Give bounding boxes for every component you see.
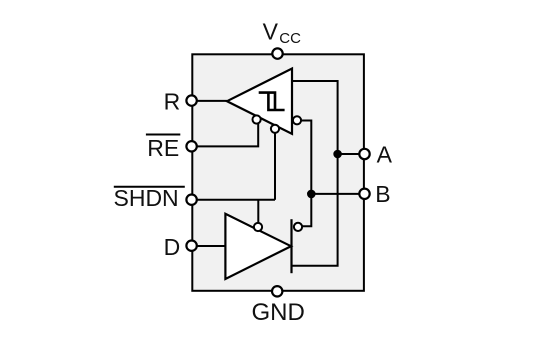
wire receiver noninverting input / driver true output to node A: [292, 81, 338, 266]
terminal GND: [272, 286, 282, 296]
hysteresis symbol inside receiver: [259, 93, 285, 110]
receiver amp (triangle, points left): [227, 69, 292, 134]
wire node A to terminal A: [338, 153, 364, 155]
driver amp (triangle, points right): [225, 214, 291, 279]
driver enable bubble (SHDN): [254, 223, 262, 231]
junction node A: [333, 150, 342, 159]
svg-text:SHDN: SHDN: [114, 185, 179, 211]
driver output bar: [290, 219, 292, 273]
driver inverting output bubble: [294, 223, 302, 231]
receiver inverting input bubble: [293, 116, 301, 124]
svg-text:A: A: [377, 141, 393, 167]
terminal RE: [186, 141, 196, 151]
terminal B: [359, 189, 369, 199]
wire node B to terminal B: [311, 193, 364, 195]
receiver enable bubble (RE): [253, 115, 261, 123]
svg-text:RE: RE: [147, 135, 179, 161]
svg-text:GND: GND: [252, 299, 305, 326]
wire receiver inverting input / driver inverting output to node B: [297, 121, 311, 227]
wire R pin to receiver apex: [192, 100, 227, 102]
terminal D: [186, 241, 196, 251]
terminal VCC: [272, 48, 282, 58]
wire SHDN pin horizontal: [192, 199, 275, 201]
terminal SHDN: [186, 195, 196, 205]
svg-text:CC: CC: [279, 30, 301, 47]
wire SHDN up branch to receiver shutdown bubble: [274, 129, 276, 200]
wire RE pin to receiver enable bubble: [192, 120, 258, 147]
svg-text:D: D: [164, 234, 181, 260]
receiver shutdown bubble (SHDN): [271, 125, 279, 133]
svg-text:B: B: [375, 181, 390, 207]
svg-text:R: R: [164, 89, 181, 115]
wire D pin to driver input: [192, 245, 225, 247]
wire SHDN down branch to driver enable bubble: [257, 200, 259, 227]
terminal A: [359, 149, 369, 159]
device outline box U1: [192, 54, 364, 290]
terminal R: [186, 95, 196, 105]
junction node B: [307, 190, 316, 199]
svg-text:V: V: [263, 19, 279, 45]
